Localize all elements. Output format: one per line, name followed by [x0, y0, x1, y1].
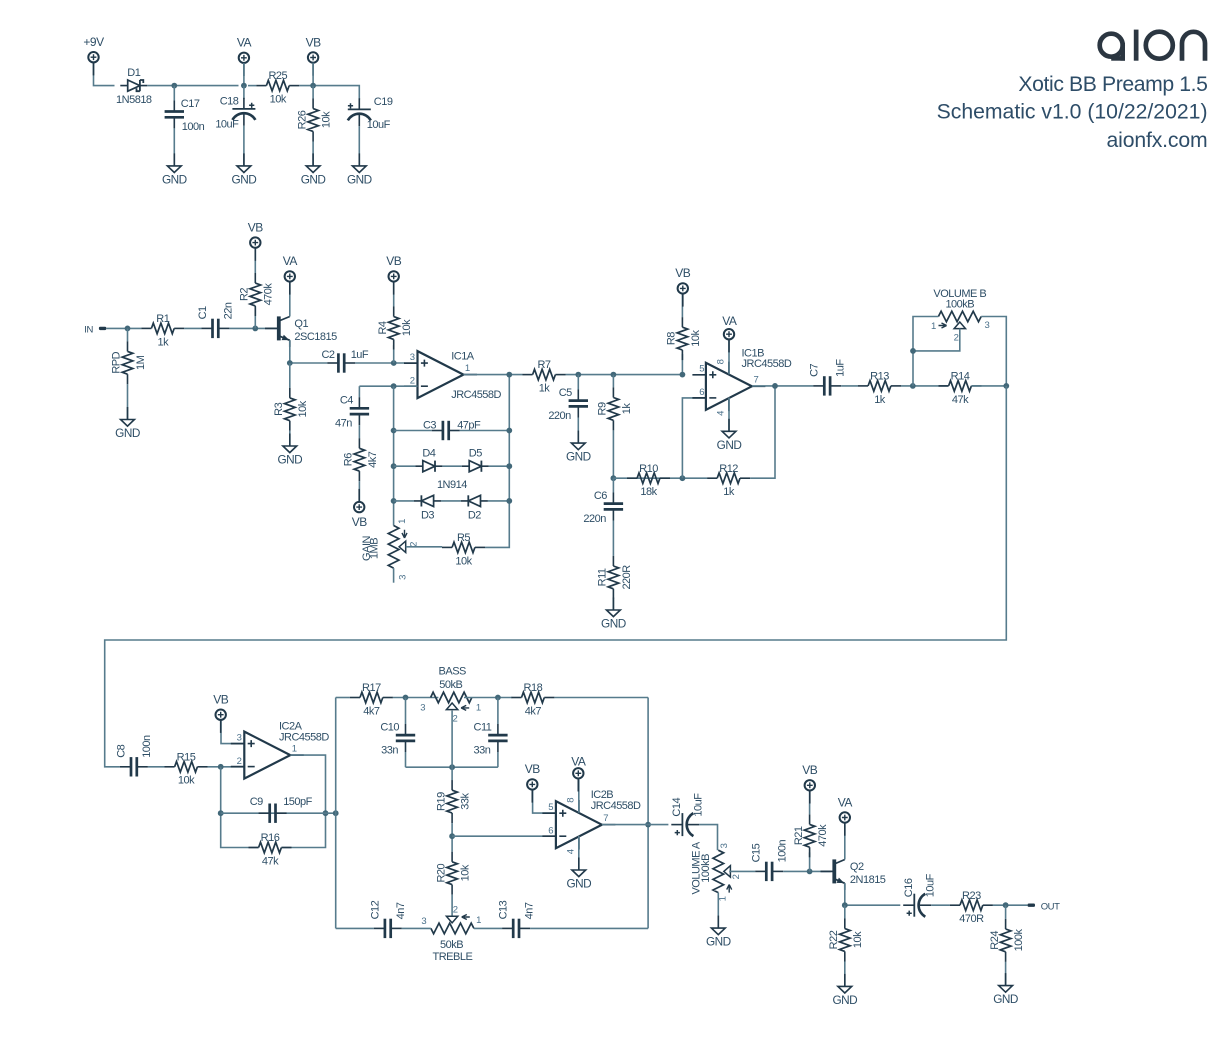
ground: [601, 598, 626, 631]
svg-text:C5: C5: [559, 387, 572, 399]
junction R19/R20/pin6: [449, 833, 455, 839]
wire RPD to GND: [127, 384, 129, 419]
svg-text:C3: C3: [423, 419, 436, 431]
svg-text:10k: 10k: [321, 111, 333, 128]
wire R17 to BASS: [393, 697, 439, 699]
junction C9 left: [218, 810, 224, 816]
resistor R11: [597, 556, 633, 599]
svg-text:1: 1: [931, 321, 936, 332]
wire C15 to Q2 base: [783, 870, 831, 872]
svg-text:1M: 1M: [135, 355, 147, 370]
svg-text:IC1A: IC1A: [451, 351, 475, 363]
svg-text:R5: R5: [457, 532, 470, 544]
ground: [232, 153, 257, 186]
svg-text:C10: C10: [380, 722, 399, 734]
svg-text:3: 3: [719, 843, 730, 848]
wire emitter to R3: [289, 363, 291, 388]
power port +9V: [83, 35, 104, 75]
svg-text:R25: R25: [268, 70, 287, 82]
svg-text:7: 7: [754, 374, 759, 385]
svg-text:2: 2: [731, 874, 742, 879]
wire C2 to IC1A pin3: [355, 362, 404, 364]
wire VOLB wiper: [913, 329, 960, 351]
svg-text:C11: C11: [474, 722, 492, 734]
wire R11 to GND: [612, 599, 614, 610]
wire C12 to TREBLE: [402, 927, 431, 929]
svg-text:C16: C16: [903, 878, 915, 897]
wire R19 to R20: [451, 823, 453, 852]
capacitor C8: [115, 735, 153, 777]
svg-text:220n: 220n: [548, 410, 571, 422]
wire C19 to GND: [358, 126, 360, 166]
wire VA port down: [243, 63, 245, 86]
svg-text:1uF: 1uF: [351, 349, 369, 361]
svg-text:2SC1815: 2SC1815: [294, 331, 337, 343]
wire VA to pin8: [728, 339, 730, 374]
svg-text:D5: D5: [469, 448, 482, 460]
power port VA: [838, 795, 853, 835]
ground: [277, 434, 302, 467]
wire to R26: [312, 86, 314, 99]
svg-text:1MB: 1MB: [369, 538, 381, 559]
ground: [566, 858, 591, 891]
svg-text:3: 3: [420, 703, 425, 714]
svg-text:RPD: RPD: [111, 351, 123, 373]
svg-text:VB: VB: [802, 763, 818, 777]
power port VB: [213, 693, 229, 733]
svg-text:VA: VA: [237, 36, 252, 50]
wire TREBLE to C13: [474, 927, 502, 929]
resistor R4: [377, 307, 413, 350]
svg-text:VA: VA: [571, 755, 586, 769]
resistor R5: [442, 532, 485, 567]
junction Q1 emitter node: [287, 360, 293, 366]
svg-text:1N5818: 1N5818: [116, 94, 152, 106]
wire R18 to feedback rail: [554, 697, 648, 699]
capacitor C13: [498, 900, 536, 938]
wire node to R24: [1005, 905, 1007, 919]
svg-text:+9V: +9V: [83, 35, 104, 49]
wire to C10: [405, 698, 407, 725]
logo aion: [1100, 30, 1205, 61]
resistor R3: [273, 388, 309, 431]
svg-text:C7: C7: [809, 363, 821, 376]
wire C8 to R15: [148, 766, 165, 768]
junction IC2B output node: [645, 822, 651, 828]
svg-text:47n: 47n: [335, 418, 352, 430]
wire D2 to output rail: [488, 500, 509, 502]
svg-text:aionfx.com: aionfx.com: [1107, 129, 1208, 152]
potentiometer BASS 50kB: [420, 666, 481, 725]
svg-text:R4: R4: [377, 321, 389, 334]
wire R25 to VB node to C19: [299, 86, 359, 100]
junction wiper/R19 node: [449, 764, 455, 770]
resistor R10: [627, 463, 670, 498]
svg-text:3: 3: [410, 352, 415, 363]
junction IC1A output node: [506, 372, 512, 378]
wire C3 to output rail: [460, 430, 510, 432]
wire IC2B out to C14: [602, 824, 669, 826]
resistor R22: [828, 919, 864, 962]
wire section link to C8: [105, 386, 1007, 767]
svg-text:VB: VB: [306, 35, 322, 49]
svg-text:18k: 18k: [640, 486, 657, 498]
svg-text:1: 1: [397, 519, 408, 524]
wire VOLB pin1: [913, 317, 938, 386]
svg-text:4k7: 4k7: [363, 705, 380, 717]
wire IC2B feedback rail: [647, 698, 649, 929]
junction R13/pot node: [910, 383, 916, 389]
svg-text:1k: 1k: [539, 383, 551, 395]
wire rail to R17: [336, 697, 350, 699]
wire C6 to R11: [612, 521, 614, 556]
wire pin4 to GND: [578, 836, 580, 870]
svg-text:C15: C15: [751, 843, 763, 862]
svg-text:R17: R17: [362, 682, 381, 694]
svg-text:R13: R13: [870, 371, 889, 383]
wire R7 to IC1B pin5: [566, 374, 683, 376]
junction VA node: [241, 83, 247, 89]
svg-text:R7: R7: [537, 359, 550, 371]
junction pin3/R4 node: [391, 360, 397, 366]
svg-text:R8: R8: [666, 332, 678, 345]
svg-text:VB: VB: [386, 254, 402, 268]
wire pin2 feedback rail: [393, 386, 395, 525]
svg-text:IC2A: IC2A: [279, 720, 303, 732]
svg-text:TREBLE: TREBLE: [433, 951, 473, 963]
svg-text:4n7: 4n7: [523, 902, 535, 919]
ground: [115, 407, 140, 440]
junction D1/C17 node: [171, 83, 177, 89]
svg-text:50kB: 50kB: [440, 939, 463, 951]
sheet port IN: [84, 324, 106, 335]
svg-text:JRC4558D: JRC4558D: [591, 800, 641, 812]
junction pin2 node: [218, 764, 224, 770]
wire R26 to GND: [312, 142, 314, 166]
junction VB node: [310, 83, 316, 89]
svg-text:10k: 10k: [460, 864, 472, 881]
capacitor C16: [903, 873, 937, 916]
diode D1: [116, 67, 152, 106]
wire to C18: [243, 86, 245, 99]
wire pin4 to GND: [728, 398, 730, 432]
wire Q2 collector to VA: [844, 823, 846, 860]
svg-text:Schematic v1.0 (10/22/2021): Schematic v1.0 (10/22/2021): [937, 100, 1208, 123]
svg-text:VA: VA: [283, 254, 298, 268]
wire VOLB pin3: [981, 317, 1006, 386]
power port VB: [802, 763, 818, 803]
wire VA to pin8: [578, 780, 580, 813]
svg-text:4: 4: [716, 411, 727, 416]
title Schematic v1.0: [937, 100, 1208, 123]
wire GAIN wiper to R5: [406, 546, 442, 548]
wire C10 down: [405, 752, 407, 767]
wire R20 to TREBLE wiper: [451, 895, 453, 917]
wire IC1B out to C7: [752, 385, 813, 387]
power port VA: [237, 36, 252, 76]
wire C16 to R23: [931, 904, 950, 906]
svg-text:R16: R16: [261, 832, 280, 844]
svg-text:VB: VB: [525, 762, 541, 776]
svg-text:GND: GND: [301, 173, 326, 187]
potentiometer TREBLE 50kB: [421, 904, 481, 963]
capacitor C18: [215, 95, 255, 130]
svg-text:GND: GND: [277, 453, 302, 467]
svg-text:R9: R9: [597, 402, 609, 415]
title aionfx.com: [1107, 129, 1208, 152]
capacitor C14: [671, 793, 705, 836]
svg-text:150pF: 150pF: [283, 796, 312, 808]
wire VB port down: [312, 63, 314, 86]
svg-text:47k: 47k: [952, 394, 969, 406]
svg-text:8: 8: [716, 359, 727, 364]
svg-text:1: 1: [476, 915, 481, 926]
svg-text:GND: GND: [162, 173, 187, 187]
wire to C11: [497, 698, 499, 725]
resistor R7: [523, 359, 566, 394]
wire C7 to R13: [841, 385, 858, 387]
ground: [566, 431, 591, 464]
svg-text:GND: GND: [717, 438, 742, 452]
svg-text:C8: C8: [115, 744, 127, 757]
svg-text:GND: GND: [993, 992, 1018, 1006]
diode D4: [415, 448, 442, 472]
power port VA: [571, 755, 586, 792]
junction C5 node: [575, 372, 581, 378]
wire R10 row: [613, 477, 707, 479]
wire base node to R2: [254, 307, 256, 328]
svg-text:R23: R23: [962, 890, 981, 902]
wire C4/pin2 net: [359, 385, 417, 387]
svg-text:C4: C4: [340, 395, 353, 407]
svg-text:5: 5: [699, 364, 704, 375]
svg-text:33n: 33n: [474, 745, 491, 757]
wire IC2A pin3 to VB: [221, 720, 244, 744]
junction rail/D5: [506, 463, 512, 469]
wire to D3: [394, 500, 414, 502]
junction output node: [1003, 902, 1009, 908]
svg-text:R12: R12: [719, 463, 738, 475]
svg-text:C18: C18: [220, 95, 239, 107]
junction IC1B output node: [772, 383, 778, 389]
label 1N914: [437, 479, 467, 491]
resistor R12: [707, 463, 750, 498]
resistor R23: [950, 890, 993, 925]
title Xotic BB Preamp 1.5: [1018, 73, 1207, 96]
svg-text:C6: C6: [594, 490, 607, 502]
wire to C3: [394, 430, 432, 432]
svg-text:VA: VA: [838, 795, 853, 809]
svg-text:10k: 10k: [455, 555, 472, 567]
svg-text:100k: 100k: [1013, 928, 1025, 951]
junction Q2 emitter node: [842, 902, 848, 908]
op-amp IC2B: [542, 789, 641, 854]
wire Q1 emitter node: [290, 340, 328, 363]
op-amp IC1B: [692, 347, 791, 416]
resistor R13: [858, 371, 901, 406]
wire IC2B pin5 to VB: [533, 790, 556, 814]
svg-text:VB: VB: [675, 266, 691, 280]
svg-text:47pF: 47pF: [457, 419, 481, 431]
svg-text:10k: 10k: [401, 319, 413, 336]
resistor R15: [165, 751, 208, 786]
svg-text:2N1815: 2N1815: [850, 874, 886, 886]
svg-text:1k: 1k: [874, 394, 886, 406]
svg-text:GND: GND: [832, 993, 857, 1007]
resistor R24: [989, 919, 1025, 962]
svg-text:1: 1: [718, 896, 729, 901]
svg-text:6: 6: [548, 825, 553, 836]
junction input node: [125, 326, 131, 332]
wire C13 to feedback rail: [530, 927, 648, 929]
svg-text:BASS: BASS: [439, 666, 467, 678]
svg-text:100n: 100n: [182, 121, 205, 133]
wire emitter to R22: [844, 905, 846, 918]
svg-text:10k: 10k: [852, 931, 864, 948]
junction pin2 node: [391, 383, 397, 389]
svg-text:4k7: 4k7: [367, 451, 379, 468]
wire VOLA pin1 to GND: [717, 893, 719, 929]
resistor R25: [256, 70, 299, 105]
capacitor C6: [583, 490, 623, 525]
power port VA: [722, 314, 737, 352]
svg-text:VB: VB: [213, 693, 229, 707]
wire to C5: [577, 375, 579, 390]
svg-text:220n: 220n: [583, 513, 606, 525]
diode D3: [414, 495, 441, 521]
svg-text:C1: C1: [197, 306, 209, 319]
capacitor C12: [369, 900, 407, 938]
resistor R1: [141, 313, 184, 348]
capacitor C5: [548, 387, 588, 422]
svg-text:R1: R1: [156, 313, 169, 325]
svg-text:10k: 10k: [690, 329, 702, 346]
svg-text:R20: R20: [435, 863, 447, 882]
svg-text:JRC4558D: JRC4558D: [451, 389, 501, 401]
svg-text:D3: D3: [421, 509, 434, 521]
wire R13 to R14: [901, 385, 949, 387]
svg-text:VA: VA: [722, 314, 737, 328]
ground: [301, 153, 326, 186]
wire pin2 feedback left: [221, 767, 259, 848]
junction R9 node: [611, 372, 617, 378]
junction C10 top: [403, 695, 409, 701]
svg-text:R15: R15: [177, 751, 196, 763]
svg-text:1: 1: [465, 363, 470, 374]
capacitor C1: [197, 302, 235, 338]
resistor R21: [793, 814, 829, 857]
wire C18 to GND: [243, 126, 245, 166]
power port VA: [283, 254, 298, 294]
junction C9 right: [323, 810, 329, 816]
wire VA to R25: [248, 85, 256, 87]
svg-text:R14: R14: [951, 371, 970, 383]
svg-text:GND: GND: [706, 935, 731, 949]
ground: [347, 153, 372, 186]
wire Q1 collector to VA: [289, 282, 291, 317]
capacitor C15: [751, 840, 789, 882]
wire GAIN pin3 stub: [393, 568, 395, 583]
power port VB: [248, 220, 264, 260]
svg-text:3: 3: [398, 575, 409, 580]
svg-text:1: 1: [476, 703, 481, 714]
wire D4 to D5: [442, 465, 461, 467]
svg-text:GND: GND: [115, 426, 140, 440]
junction R14/section link: [1003, 383, 1009, 389]
svg-text:C14: C14: [671, 798, 683, 817]
wire to C17: [173, 86, 175, 101]
svg-text:JRC4558D: JRC4558D: [279, 732, 329, 744]
svg-text:10k: 10k: [178, 775, 195, 787]
svg-text:C13: C13: [498, 900, 510, 919]
svg-text:C2: C2: [321, 349, 334, 361]
capacitor C17: [165, 98, 205, 133]
svg-text:C19: C19: [374, 96, 393, 108]
wire C17 to GND: [173, 128, 175, 166]
wire to R9: [612, 375, 614, 388]
wire node to R21: [809, 852, 811, 871]
transistor Q1: [265, 316, 337, 347]
junction D4 left: [391, 463, 397, 469]
resistor R2: [239, 273, 275, 316]
wire C11 down: [497, 752, 499, 767]
svg-text:R18: R18: [524, 682, 543, 694]
svg-text:50kB: 50kB: [439, 679, 462, 691]
svg-text:33k: 33k: [460, 792, 472, 809]
svg-text:1N914: 1N914: [437, 479, 467, 491]
svg-text:GND: GND: [566, 450, 591, 464]
svg-text:5: 5: [548, 802, 553, 813]
capacitor C2: [321, 349, 368, 373]
svg-text:IN: IN: [84, 324, 93, 335]
capacitor C7: [809, 359, 847, 396]
svg-text:1uF: 1uF: [834, 359, 846, 377]
svg-text:GND: GND: [232, 173, 257, 187]
svg-text:R6: R6: [343, 453, 355, 466]
power port VB: [386, 254, 402, 294]
wire pin6 feedback: [682, 398, 706, 478]
svg-text:JRC4558D: JRC4558D: [742, 358, 792, 370]
junction rail/D2: [506, 498, 512, 504]
svg-text:1k: 1k: [723, 486, 735, 498]
svg-text:470R: 470R: [959, 913, 984, 925]
transistor Q2: [821, 859, 886, 890]
svg-text:47k: 47k: [262, 855, 279, 867]
power port VB: [675, 266, 691, 306]
resistor R19: [435, 780, 471, 823]
wire node to R4: [393, 345, 395, 363]
power port VB: [306, 35, 322, 75]
junction wiper/pin1: [910, 348, 916, 354]
ground: [706, 916, 731, 949]
wire BASS to R18: [464, 697, 512, 699]
svg-text:10uF: 10uF: [367, 119, 391, 131]
svg-text:R26: R26: [296, 110, 308, 129]
wire R1 to C1: [184, 327, 201, 329]
svg-text:1k: 1k: [621, 403, 633, 415]
wire C9 row: [221, 812, 336, 814]
wire R14 to node: [972, 385, 1007, 387]
wire VOLA wiper to C15: [729, 870, 755, 872]
svg-text:100n: 100n: [776, 840, 788, 863]
svg-text:VB: VB: [248, 220, 264, 234]
svg-text:C12: C12: [369, 900, 381, 919]
wire R21 to VB: [809, 791, 811, 815]
svg-text:100n: 100n: [141, 735, 153, 758]
svg-text:OUT: OUT: [1041, 901, 1060, 912]
resistor R16: [249, 832, 292, 867]
wire R6 to VB: [358, 481, 360, 502]
